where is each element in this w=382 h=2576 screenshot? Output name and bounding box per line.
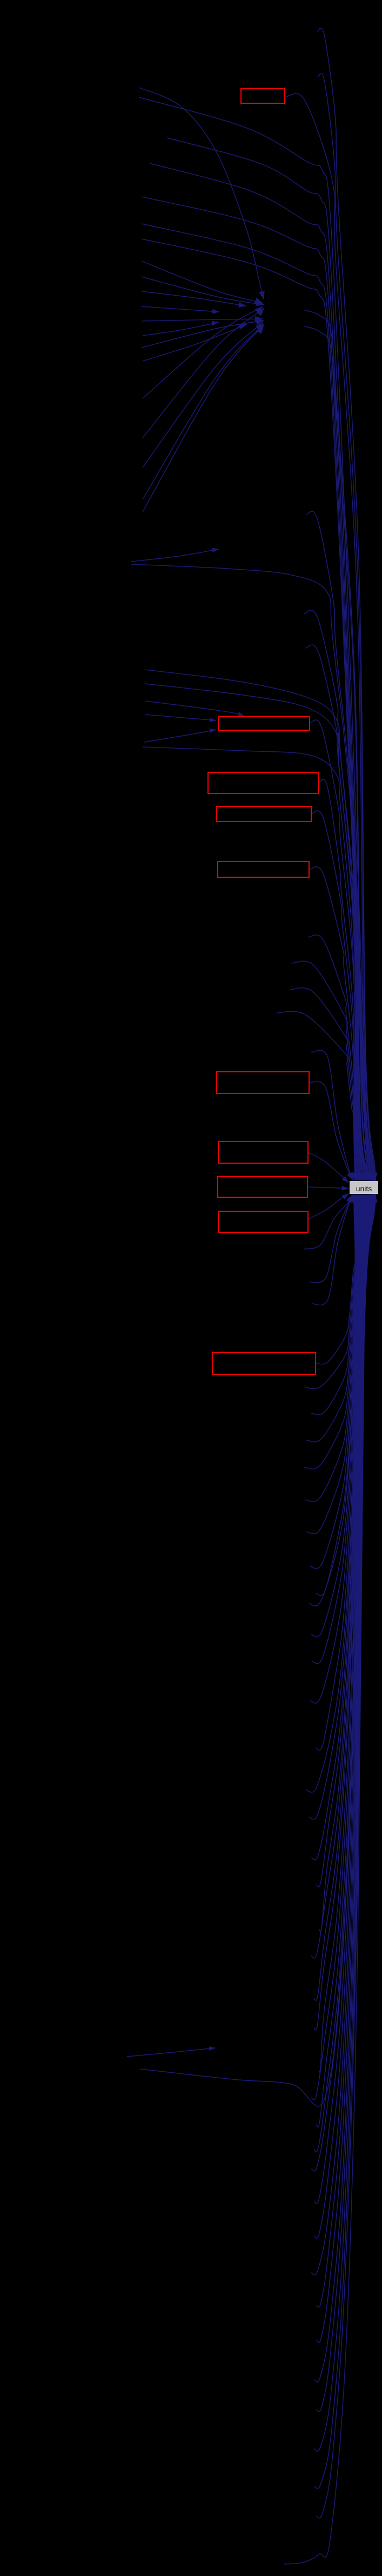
svg-text:units: units [356,1184,372,1193]
